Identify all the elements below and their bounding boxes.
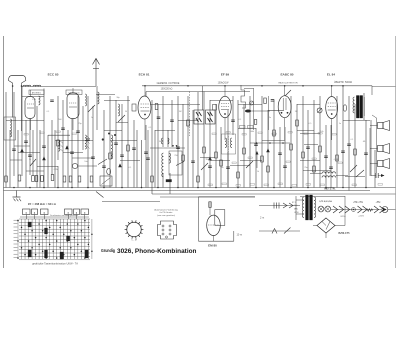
svg-text:NETZTR.: NETZTR. — [325, 186, 336, 190]
dipole link — [96, 94, 115, 96]
label ratio det — [278, 82, 298, 85]
speaker 2 — [378, 144, 390, 154]
svg-text:3026, Phono-Kombination: 3026, Phono-Kombination — [117, 248, 197, 255]
dial scale — [125, 220, 144, 238]
coil box 2 — [66, 90, 82, 95]
EM80 resistor — [209, 202, 211, 208]
hatched coil 1 — [59, 140, 64, 152]
tube EF89 — [219, 96, 232, 118]
svg-text:ÜBERTR. 5000Ω: ÜBERTR. 5000Ω — [334, 81, 352, 84]
svg-text:RATIO-DETEKTOR: RATIO-DETEKTOR — [278, 82, 298, 85]
top rail main — [142, 86, 396, 95]
table dark block 1 — [28, 250, 31, 257]
title model — [117, 248, 197, 255]
svg-text:5k: 5k — [159, 141, 161, 143]
electrolytic 1 — [333, 206, 338, 213]
ratio det coil 1 — [162, 153, 164, 177]
phono socket note — [154, 209, 178, 217]
svg-text:6,8k: 6,8k — [32, 99, 36, 101]
tube EL84 innards — [328, 86, 336, 140]
electrolytic 4 — [358, 206, 363, 213]
svg-text:GEMEINS. KATHODE: GEMEINS. KATHODE — [157, 82, 180, 85]
output arrow circle — [382, 207, 396, 213]
tube EL84 — [326, 97, 338, 119]
ratio det dark — [166, 180, 172, 182]
svg-text:EL 84: EL 84 — [327, 73, 335, 77]
svg-text:für PK-Geräte: für PK-Geräte — [160, 211, 174, 214]
bus 5 — [102, 201, 160, 203]
wire horizontals — [6, 97, 370, 177]
svg-text:gedrückte Tastenkombination UK: gedrückte Tastenkombination UKW - TA — [32, 262, 78, 266]
label ECC85 — [48, 73, 59, 77]
label ZF — [28, 202, 57, 206]
table caption — [32, 262, 78, 266]
wire verticals — [6, 86, 375, 194]
table header buttons — [23, 209, 89, 219]
phono socket — [158, 221, 177, 239]
cap ech81 out — [157, 117, 161, 119]
wire links — [10, 123, 320, 172]
speaker wires — [370, 115, 378, 176]
IF transformer 1b — [206, 110, 216, 124]
svg-text:100kΩ/1W: 100kΩ/1W — [218, 83, 230, 85]
label gemeins kathode — [157, 82, 180, 91]
label ECH81 — [139, 73, 150, 77]
table header rail — [20, 214, 89, 217]
svg-text:ECH 81: ECH 81 — [139, 73, 150, 77]
top rail left — [22, 85, 96, 86]
output transformer — [353, 96, 364, 119]
label specks row — [208, 183, 383, 186]
switch row 1 labels — [292, 202, 299, 214]
svg-text:C - M: C - M — [131, 239, 137, 241]
table dark block 4 — [85, 250, 88, 258]
capacitors — [12, 100, 368, 169]
speaker 1 — [378, 121, 390, 131]
pot arm — [256, 151, 259, 168]
resistor det — [254, 120, 256, 125]
tube EF89 innards — [221, 86, 229, 140]
svg-text:100/220 kΩ: 100/220 kΩ — [161, 89, 173, 91]
electrolytic 7 — [380, 206, 385, 213]
svg-text:0,75 0,8 0,1A: 0,75 0,8 0,1A — [319, 200, 332, 203]
labels 100p — [240, 126, 254, 129]
resistor near EF89 — [264, 98, 267, 104]
wave switch shaft — [241, 85, 246, 108]
label EF89 — [221, 73, 230, 77]
tube ECC85b innards — [69, 88, 77, 130]
value labels — [29, 97, 366, 173]
IF transformer 1a — [194, 110, 204, 124]
svg-text:5n: 5n — [269, 117, 271, 119]
label EABC80 — [280, 73, 293, 77]
oscillator coil — [98, 133, 116, 175]
table grid — [18, 219, 92, 260]
svg-text:+50µ +50µ: +50µ +50µ — [353, 202, 364, 204]
mains leads — [296, 196, 304, 220]
screen rail — [146, 91, 250, 93]
speaker capacitor — [371, 173, 385, 178]
hatched coil 2 — [85, 135, 90, 149]
svg-text:EM 80: EM 80 — [208, 243, 217, 247]
label uebertr — [334, 81, 352, 84]
svg-text:Grundig: Grundig — [101, 248, 115, 253]
coil box 1 — [29, 90, 44, 95]
ECH81 grid cap — [132, 104, 136, 111]
svg-text:10n: 10n — [194, 119, 197, 121]
svg-text:EABC 80: EABC 80 — [280, 73, 293, 77]
svg-text:0,5M: 0,5M — [54, 169, 59, 171]
labels electrolytics — [319, 200, 381, 218]
bridge wires — [313, 196, 345, 238]
svg-text:1n: 1n — [91, 117, 93, 119]
ratio det link — [150, 145, 185, 148]
trimmer caps — [20, 145, 270, 167]
svg-text:1M: 1M — [179, 111, 182, 113]
IF transformer 4 — [222, 134, 236, 154]
EM80 grid box — [215, 210, 225, 226]
EM80 wire loop — [199, 197, 256, 241]
table dark block 2 — [45, 250, 48, 258]
label EL84 — [327, 73, 335, 77]
antenna mast — [9, 76, 26, 132]
label EM80 — [208, 243, 217, 247]
bridge rectifier — [317, 218, 335, 233]
left scan border — [3, 36, 5, 268]
tube EABC80 — [278, 96, 291, 118]
svg-text:EF 89: EF 89 — [221, 73, 230, 77]
svg-text:Drucktasten von oben gesehen: Drucktasten von oben gesehen — [50, 214, 78, 217]
label dial — [131, 239, 137, 241]
electrolytic 3 — [345, 206, 350, 213]
phono switch box — [100, 176, 112, 186]
svg-text:UKW: UKW — [294, 212, 299, 214]
tube EABC80 innards — [281, 86, 289, 140]
ratio det box — [169, 151, 182, 175]
label 10m — [237, 234, 243, 237]
switch row 2 — [259, 228, 300, 234]
electrolytic rail — [331, 209, 381, 211]
table dark mid — [28, 222, 70, 241]
det wires — [244, 88, 270, 130]
ratio det coil 2 — [169, 153, 171, 163]
dipole antenna — [93, 59, 100, 87]
svg-text:2k: 2k — [29, 159, 31, 161]
wire mid vertical — [146, 130, 150, 188]
tube ECC85b — [67, 93, 79, 119]
label 2m — [260, 217, 264, 220]
pot volume — [72, 163, 77, 168]
svg-text:10 m: 10 m — [237, 234, 243, 237]
tube ECC85a innards — [27, 90, 34, 130]
osc coil — [39, 92, 120, 116]
label netztr — [325, 186, 336, 190]
dropper resistor — [366, 209, 373, 212]
svg-text:10k: 10k — [320, 131, 323, 133]
svg-text:100k: 100k — [250, 131, 254, 133]
feed point — [352, 208, 356, 212]
svg-text:Automatische Vorführung: Automatische Vorführung — [154, 209, 178, 212]
tube ECC85a — [25, 97, 35, 119]
svg-text:10n: 10n — [84, 161, 87, 163]
svg-text:(von vorn gesehen): (von vorn gesehen) — [157, 214, 175, 217]
svg-text:B250-C75: B250-C75 — [339, 232, 351, 235]
tube EM80 — [207, 215, 221, 235]
bus 3 — [152, 193, 396, 195]
electrolytic 6 — [374, 206, 379, 213]
label anode supply — [218, 83, 230, 85]
electrolytic 5 — [363, 206, 368, 213]
table contact dots — [17, 220, 92, 259]
svg-text:ANT.EING.: ANT.EING. — [32, 92, 42, 95]
right scan border — [395, 36, 397, 268]
power transformer — [302, 195, 315, 220]
svg-text:1M: 1M — [295, 111, 298, 113]
resistors row — [5, 104, 357, 183]
pilot lamp 2 — [325, 206, 331, 212]
coupling cap oval — [343, 105, 346, 111]
IFT1 feed wire — [190, 86, 203, 136]
svg-text:50k: 50k — [220, 167, 223, 169]
bus 4 — [160, 196, 345, 199]
svg-text:+50µ: +50µ — [376, 202, 382, 204]
svg-text:1k: 1k — [257, 171, 259, 173]
trimmer C — [250, 101, 254, 105]
label specks mid — [24, 131, 342, 164]
cap near EABC80 — [271, 100, 275, 102]
label bridge — [339, 232, 351, 235]
ratio det top coils — [162, 138, 170, 144]
potentiometer — [317, 108, 322, 113]
switch arms — [30, 90, 364, 198]
svg-text:2 m: 2 m — [260, 217, 264, 220]
ratio det switch — [176, 162, 184, 166]
table dark block 3 — [60, 252, 63, 259]
pilot lamp 1 — [318, 206, 324, 212]
tube ECH81 — [138, 96, 151, 119]
tone coils — [310, 172, 348, 178]
svg-text:ECC 85: ECC 85 — [48, 73, 59, 77]
table row labels — [14, 220, 18, 257]
bus chassis 1 — [4, 187, 396, 189]
EM80 innards — [208, 202, 219, 241]
agc line — [250, 142, 290, 144]
electrolytic 2 — [339, 206, 344, 213]
speaker 3 — [378, 159, 390, 169]
bus chassis 2 — [4, 190, 371, 192]
antenna input dashed box — [4, 117, 16, 140]
ground — [13, 191, 22, 202]
svg-text:25n: 25n — [304, 167, 307, 169]
switch row 1 — [259, 203, 300, 209]
svg-text:ZF = 468 kHz = 641 m: ZF = 468 kHz = 641 m — [28, 202, 57, 206]
svg-text:5n: 5n — [339, 123, 341, 125]
tube ECH81 innards — [141, 86, 150, 140]
svg-text:0,3M: 0,3M — [334, 159, 339, 161]
title Grundig — [101, 248, 115, 253]
tantal dark — [245, 110, 251, 113]
EF89 grid stopper — [213, 105, 217, 111]
svg-text:+200V: +200V — [358, 216, 365, 218]
